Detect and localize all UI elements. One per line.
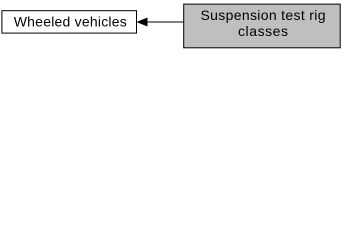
svg-text:classes: classes: [238, 23, 288, 39]
arrowhead pointing at Wheeled vehicles: [137, 18, 147, 26]
edge wire from Suspension box to arrowhead: [147, 21, 184, 23]
node box: Wheeled vehicles: [2, 11, 137, 33]
svg-text:Suspension test rig: Suspension test rig: [201, 7, 326, 23]
node box: Suspension test rig classes (current, grey): [184, 4, 341, 48]
svg-text:Wheeled vehicles: Wheeled vehicles: [14, 14, 127, 30]
